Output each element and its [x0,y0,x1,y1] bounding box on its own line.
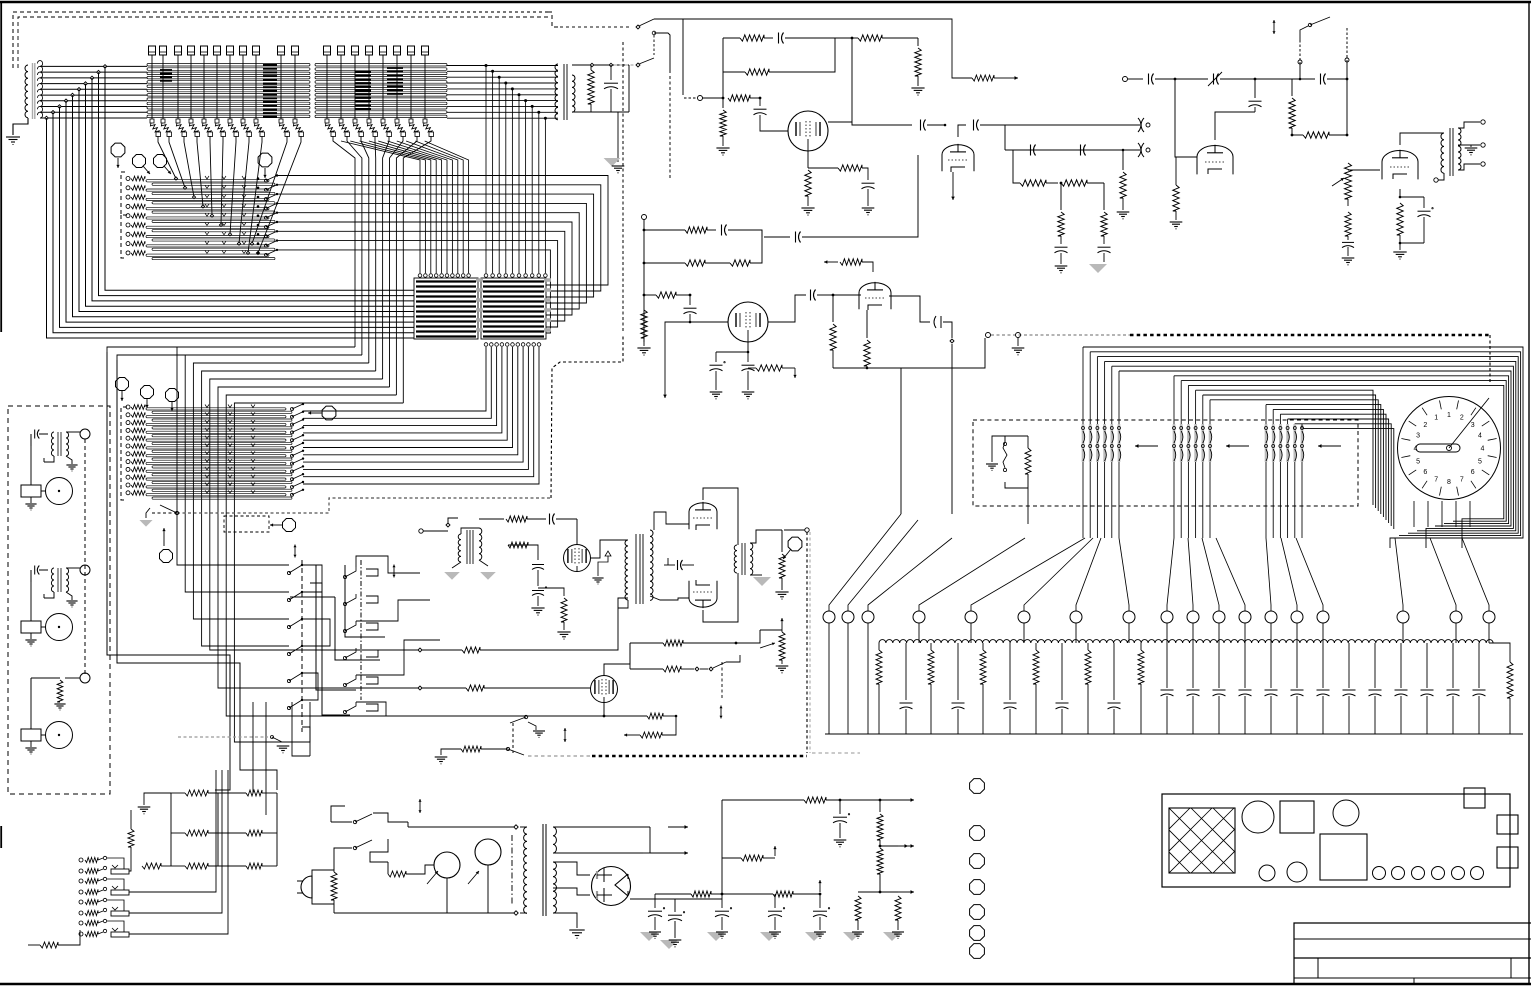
tone divider R-C to ground 2 [1103,183,1105,210]
vibrato line in terminal [419,529,423,533]
border frame left [0,2,2,332]
svg-text:4: 4 [1478,433,1482,440]
bank A row 5 busbars [146,217,269,219]
shield dashed vertical preamp [669,76,671,180]
switch bank unit 4 lower [79,932,83,936]
speaker 2 ground [25,639,36,641]
pot to ground [1347,199,1349,206]
top feedback rail [723,37,740,39]
power transformer T7 core [542,824,544,916]
dense crossing column block2 b [387,67,403,69]
switch bank feed stub [40,942,58,948]
bank A row 9 taps [205,250,209,253]
filter chain inductors [879,640,1493,643]
cathode follower V1B [942,145,974,171]
V2 left bias resistor [641,310,647,338]
chassis outline [1162,794,1510,887]
switch to shielded bus [506,747,509,750]
V7 cathode ground [531,607,544,609]
push-pull plate wires [703,488,738,545]
rail resistor R-L1 [462,647,480,653]
matching transformer block M1 [414,278,478,339]
updown symbol matrix left [294,545,296,552]
second feedback rail [723,71,745,73]
rectifier output wire [628,885,722,899]
V2 cathode network [747,342,749,352]
V3 load resistors [832,295,834,322]
grid left ground [144,793,171,805]
generator transformer T-GEN [25,65,28,118]
rail wire upper [383,649,416,651]
filter chain bottom bus [825,733,1523,735]
octagon terminal shield [160,550,173,563]
drawbar bank B dashed bracket [121,407,127,500]
ground R14 [911,87,924,89]
scanner group 2 pickup arrow [1226,445,1249,447]
T3 secondary wires [572,64,629,66]
pilot lamp I1 [434,852,460,878]
drawbar bank A dashed bracket [121,172,127,215]
bank A row 9 busbars [146,254,269,256]
scanner group 2 contact 6 [1209,424,1212,462]
dial tick marks [1488,456,1497,458]
wire fan block1 to bank A [158,136,176,179]
matrix switch row 3 left contact [287,625,290,628]
dense crossing column block1 [263,64,277,66]
bank B row 4 resistor [126,428,130,432]
speaker 1 input terminal [80,429,90,439]
switch bank unit 3 lower [79,911,83,915]
T4 gray ground arrows [444,572,460,580]
scanner group 3 contact 4 [1286,424,1289,462]
svg-text:6: 6 [1471,469,1475,476]
decoupling caps row [654,894,656,908]
rectifier tube V10 [592,867,631,906]
filter chain caps right group [1166,643,1168,688]
bank A row 5 resistor [126,214,130,218]
scanner wrap bundle [1083,347,1523,548]
V4 plate cap [1215,112,1255,140]
coupling cap push-pull [667,558,669,565]
power switch S-P2 [334,822,352,848]
shield dashed vertical center [622,42,624,332]
bank A row 3 taps [205,195,209,198]
bank B row 1 busbars [146,408,286,410]
power transformer T7 secondary upper [553,827,556,853]
scanner dashed bus top [986,333,991,338]
bank B row 4 busbars [146,431,286,433]
power plug [301,876,312,898]
updown symbol matrix right [393,565,395,572]
divider resistor vertical [1291,79,1293,96]
rail y669 to switch contacts [630,668,663,670]
speaker 3 driver [21,729,41,741]
tone divider R-C to ground 1 [1060,183,1062,210]
V9 plate to rail [604,643,630,676]
V3 outputs grounds [832,371,834,392]
power switch S-P1 [334,848,352,870]
V4 wiring to V5 [1344,170,1386,178]
rail resistor R-L3 [663,640,683,646]
tone resistors row [1005,150,1020,183]
V9 cathode network [603,702,605,716]
shield dashed vertical right [551,334,623,498]
speaker 3 resistor to ground [30,678,32,690]
matching transformer block M2 [481,278,546,339]
selector switch S-T1 [636,25,640,29]
bank A row 2 taps [205,185,209,188]
T4 secondary leads [479,560,488,566]
chassis small holes row [1373,867,1386,880]
switch bank unit 2 upper [79,879,83,883]
bank B row 10 resistor [126,475,130,479]
shielded vibrato bus dotted [528,755,592,757]
feedback resistor row [624,734,640,736]
matrix switch row 2 left contact [287,598,290,601]
matrix ground [277,745,290,747]
svg-text:3: 3 [1416,433,1420,440]
scanner group 1 contact 5 [1111,424,1114,462]
V2 stage input terminal [642,215,647,220]
T3 load resistor [588,70,594,104]
matrix switch row 6 right contact [345,702,356,712]
updown symbol top right [1273,20,1275,27]
wire from V3 down to fan [951,344,953,514]
lamp feed wires [370,839,388,862]
bank B row 12 resistor [126,491,130,495]
scanner group feed verticals [1082,347,1084,424]
bank A row 7 busbars [146,236,269,238]
vibrato input transformer T4 [458,534,461,562]
svg-text:5: 5 [1478,458,1482,465]
speaker 1 ground [25,503,36,505]
svg-text:5: 5 [1416,458,1420,465]
T2 secondary leads [1458,122,1480,128]
octagon callout [283,519,296,532]
bank B row 2 resistor [126,413,130,417]
octagon terminal TG-2 [133,155,146,168]
dial pointer [1449,398,1489,448]
terminal lugs row above block1 [149,46,156,55]
octagon terminal bank B [322,406,336,420]
low B rail resistors [655,893,691,895]
bank B outputs to M blocks bottom [303,347,486,411]
scanner group 1 contact 3 [1096,424,1099,462]
tone load resistor [1122,149,1125,152]
scanner group 3 contact 6 [1301,424,1304,462]
wire preamp junction to scanner [901,338,985,368]
divider resistor horizontal [1292,134,1303,136]
V2 grid rail [644,294,656,296]
V2 feedback cap C21 [721,225,723,236]
ground return resistor [435,756,448,758]
plug resistor [312,870,334,876]
V1B arrow down [952,172,954,186]
vibrato output transformer T6 [734,545,737,573]
speaker 1 transformer ground [66,456,72,464]
generator output lines bundle [37,61,42,67]
bank A row 4 resistor [126,204,130,208]
matrix switch row 1 right contact [345,567,356,577]
preamp input transformer T3 [555,64,558,120]
T5 shield terminal [605,551,611,556]
svg-text:1: 1 [1447,412,1451,419]
V5 plate to transformer [1400,133,1444,145]
V2 arrow down [665,322,690,385]
grid resistors [171,792,185,794]
svg-text:1: 1 [1434,415,1438,422]
switch bank unit 1 lower [79,869,83,873]
octagon terminal above bank B 1 [116,378,129,391]
tone network rails [1005,124,1140,126]
power octagon terminals [970,779,985,794]
matrix switch row 5 left contact [287,679,290,682]
chassis tab right 2 [1497,847,1518,868]
bank B row 10 busbars [146,478,286,480]
reverb tube V9 [591,676,618,703]
selector switch S-T2 [614,64,636,66]
bleeder resistor chain [879,800,881,812]
V5 cathode RC [1399,189,1401,197]
vibrato interstage transformer T5 [590,540,628,558]
V2 cathode resistor right [748,352,756,368]
bank B row 5 busbars [146,439,286,441]
T6 secondary to line [750,530,782,543]
ground generator [6,136,20,138]
shield bus left switch [175,511,178,514]
matrix switch row 4 left contact [287,652,290,655]
title block frame [1294,923,1531,984]
terminal lugs row above block2 [324,46,331,55]
scanner group 3 contact 2 [1272,424,1275,462]
bank A row 6 resistor [126,223,130,227]
dropping resistor R14 [917,38,919,46]
bank A output lines to staircase [277,176,608,286]
speaker 3 input terminal [80,673,90,683]
plate rail y643 [630,642,663,644]
grid node wires [170,793,172,866]
speaker 2 driver [21,621,41,633]
grid left resistor [130,810,132,829]
bank A output switches [265,179,268,182]
bank B row 8 resistor [126,460,130,464]
V1 grid stopper [722,107,724,109]
bank A row 1 busbars [146,180,269,182]
coupling cap C22 [795,232,797,243]
scanner group 1 contact 4 [1103,424,1106,462]
octagon terminal above bank B 2 [141,386,154,399]
speaker bus dashed link [84,439,86,674]
filter chain end resistor [1489,643,1510,662]
bank B row 3 resistor [126,421,130,425]
grid leak to rail [722,38,724,108]
bank A row 7 taps [205,232,209,235]
matrix switch row 2 right contact [345,594,356,604]
T2 center tap ground [1464,145,1471,147]
variable cap C42 [1175,78,1208,80]
scanner dial circle [1398,397,1501,500]
border frame top [0,1,1531,3]
bank A row 5 taps [205,213,209,216]
dial pickup handle [1416,444,1460,452]
filter cap C-P2 [839,800,841,814]
bank B row 11 busbars [146,486,286,488]
feedback resistor arrow [972,75,994,81]
bank A row 8 busbars [146,245,269,247]
matrix switch row 1 left contact [287,571,290,574]
bank A row 4 busbars [146,208,269,210]
chassis small circle 2 [1287,862,1307,882]
filter chain resistors left group [878,643,880,650]
chassis tube circle 2 [1333,800,1359,826]
coupling cap C-V1 [549,514,551,525]
bank B row 9 resistor [126,467,130,471]
updown symbol power switch [419,799,421,806]
dashed link to preamp input [684,97,696,99]
driver tube V4 [1197,146,1233,175]
shield dashed line top-left corner [13,12,215,68]
grid resistor R11 [728,95,750,101]
B+ rail top [722,799,804,801]
shield dashed bus mid-left [152,512,177,514]
scanner group 3 pickup arrow [1318,445,1341,447]
updown symbol S-L1 [564,728,566,735]
grid capacitor C23 [689,295,691,305]
chassis can square big [1320,834,1367,880]
V3 output to right [889,296,930,322]
svg-text:2: 2 [1423,422,1427,429]
wire fan block2 to M1 top verticals [341,141,420,273]
chassis small circle 1 [1259,865,1275,881]
grid resistor R-V1 [479,518,504,520]
octagon terminal TG-4 [258,153,272,167]
connector arcs to power amp [1138,118,1141,132]
scanner group 2 contact 4 [1194,424,1197,462]
scanner group 1 contact 1 [1082,424,1085,462]
V2 feedback resistor R22 [644,262,685,264]
bank B row 1 resistor [126,405,130,409]
bank A row 2 resistor [126,186,130,190]
scanner group 2 contact 1 [1173,424,1176,462]
svg-text:7: 7 [1460,476,1464,483]
bank A row 2 busbars [146,189,269,191]
bank A row 8 resistor [126,242,130,246]
preamp tube V2 [728,302,768,342]
svg-text:3: 3 [1471,422,1475,429]
rail wire lower [383,687,416,689]
divider resistors to ground [858,891,880,893]
svg-text:6: 6 [1423,469,1427,476]
key contact bus block 2 [315,64,447,67]
bank A row 7 resistor [126,232,130,236]
scanner group 2 contact 5 [1202,424,1205,462]
pilot lamp I2 [475,839,501,865]
V1 cathode network [807,151,809,168]
filter cap C-P1 [674,899,676,912]
chassis tab top [1464,788,1485,808]
bank B row 8 busbars [146,462,286,464]
switch bank unit 3 upper [79,900,83,904]
octagon terminal above bank B 3 [166,389,179,402]
speaker 2 matching transformer [51,568,54,592]
matrix switch row 5 right contact [345,675,356,685]
updown symbol right switch [720,706,722,713]
bus line taps to matching transformer M2 [485,64,488,67]
bank B row 11 resistor [126,483,130,487]
vibrato line octagon [788,537,802,551]
scanner group 2 contact 3 [1187,424,1190,462]
coupling cap C41 [1148,74,1150,85]
transformer primary dashdot [511,835,513,905]
dense crossing column block2 a [355,71,371,73]
chassis can square 1 [1280,801,1314,833]
feedback resistor R12 [740,35,764,41]
bank A row 3 resistor [126,195,130,199]
speaker 2 transformer ground [66,592,72,600]
coupling cap C2 [958,125,966,137]
filter chain terminals [823,611,835,623]
svg-text:4: 4 [1414,446,1418,453]
preamp tube V1 [788,111,828,151]
generator line taps to left bundle [45,116,49,120]
bank B row 12 busbars [146,494,286,496]
contact resistors below block1 [150,119,154,123]
scanner group 3 contact 1 [1265,424,1268,462]
line terminating resistor [781,530,783,552]
input grid capacitor [759,98,761,106]
bank B row 5 resistor [126,436,130,440]
matrix switch row 3 right contact [345,621,356,631]
screen feed resistor [722,857,741,859]
scanner bias network [1005,436,1028,442]
shield dotted bus top [215,11,548,13]
V2 plate coupling [768,295,806,322]
speaker 1 coupling capacitor [30,434,32,446]
bank B row 6 resistor [126,444,130,448]
scanner group 1 contact 6 [1118,424,1121,462]
svg-text:7: 7 [1434,476,1438,483]
fuse resistor [345,805,356,807]
chassis tube circle 1 [1242,801,1274,833]
feedback cap C12 [764,37,773,39]
scanner group 1 contact 2 [1089,424,1092,462]
power transformer T7 primary [524,827,527,913]
grid feed wires [215,700,230,790]
scanner dashed box [973,420,1358,506]
scanner group 1 pickup arrow [1135,445,1158,447]
shield dotted bus step down [548,12,560,27]
small crossing stack block1 left [160,69,172,71]
V3 grid resistor + arrow [824,261,838,263]
vibrato delay line dashed [806,532,808,753]
vibrato amp tube V7 [576,519,578,545]
gray ground arrow T6 [753,577,771,586]
speaker 2 coupling capacitor [30,570,32,582]
bank B output switches [291,408,294,411]
tone cap C4 [1080,145,1082,156]
power transformer T7 secondary lower [553,862,556,913]
bank A row 9 resistor [126,251,130,255]
bank B row 6 busbars [146,447,286,449]
switch S-L1 [524,715,527,718]
fan wires to filter chain [829,514,901,611]
speaker 1 driver [21,485,41,497]
border frame bottom [0,983,1531,986]
switch bank unit 2 lower [79,890,83,894]
preamp input terminal [698,96,703,101]
rail resistor R-L2 [466,685,484,691]
dial contact stubs [1413,501,1415,527]
